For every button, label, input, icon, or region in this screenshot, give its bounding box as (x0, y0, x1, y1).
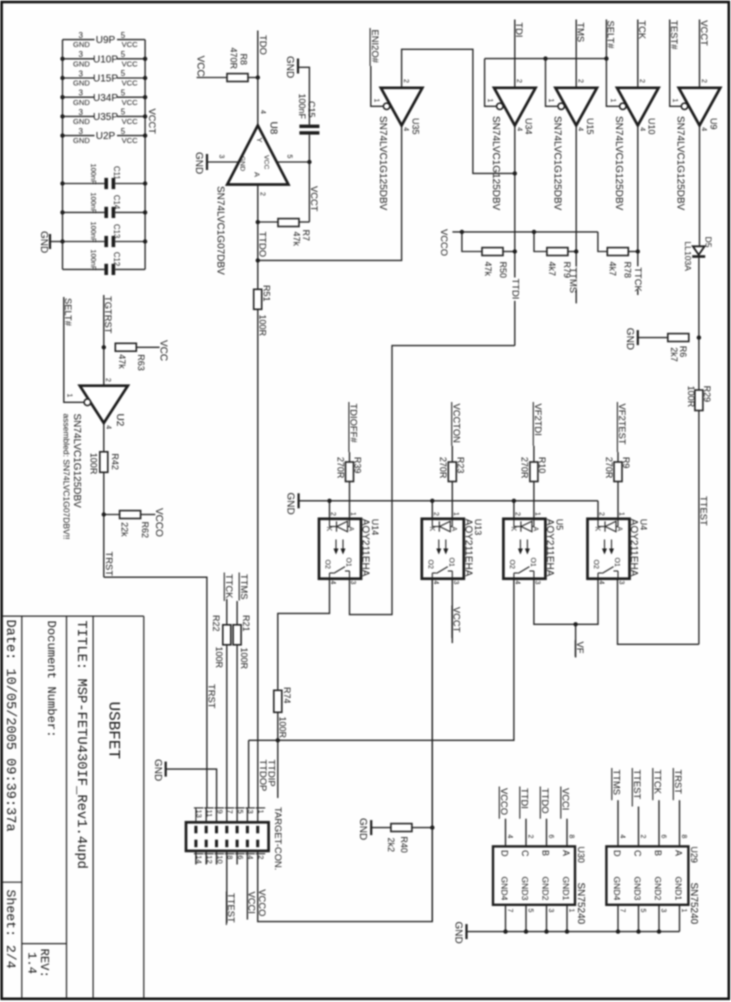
resistor R22 100R (223, 625, 231, 645)
svg-text:VCCT: VCCT (452, 607, 463, 633)
svg-text:100nF: 100nF (89, 192, 98, 213)
svg-text:GND: GND (285, 493, 296, 515)
svg-text:5: 5 (527, 909, 534, 913)
U14 light arrows (335, 540, 337, 553)
buffer U9 triangle SN74LVC1G125DBV (679, 88, 721, 126)
wire R74 to TTDIP bus (277, 712, 279, 740)
svg-text:U2: U2 (114, 414, 125, 427)
node GND bus U5 pin2 (512, 499, 516, 503)
connector pin 13 stub (195, 808, 197, 822)
ground symbol opto bus (298, 493, 300, 508)
svg-text:R10: R10 (537, 457, 547, 474)
svg-text:2: 2 (639, 835, 646, 839)
svg-text:GND2: GND2 (541, 877, 551, 901)
svg-text:AQY211EHA: AQY211EHA (462, 519, 473, 577)
svg-text:100nF: 100nF (89, 249, 98, 270)
svg-text:2k7: 2k7 (669, 347, 679, 362)
svg-text:100R: 100R (214, 647, 224, 669)
node pin5-C15 junction (307, 160, 311, 164)
wire R8 to TDO node (248, 77, 258, 79)
connector pin 14 pad (194, 840, 197, 848)
node GND bus junction (636, 929, 640, 933)
svg-text:5: 5 (285, 155, 292, 159)
U4 LED internal (597, 519, 599, 527)
svg-text:SN75240: SN75240 (688, 883, 699, 925)
svg-text:R79: R79 (562, 262, 572, 279)
svg-text:U9P: U9P (96, 35, 116, 46)
svg-text:U5: U5 (554, 519, 564, 531)
svg-text:22k: 22k (120, 522, 130, 537)
svg-text:7: 7 (619, 909, 626, 913)
svg-text:assembled: SN74LVC1G07DBV!!: assembled: SN74LVC1G07DBV!! (61, 414, 71, 540)
wire enable bus SELT# (485, 58, 607, 60)
resistor R6 2k7 (668, 334, 689, 342)
node GND bus U13 pin2 (430, 499, 434, 503)
svg-text:TTEST: TTEST (698, 496, 709, 526)
buffer U10 enable bubble (620, 103, 626, 109)
svg-text:VCCO: VCCO (439, 229, 450, 256)
svg-text:VCCI: VCCI (560, 788, 571, 810)
svg-text:TDO: TDO (258, 35, 269, 55)
svg-text:R42: R42 (110, 453, 120, 470)
svg-text:VCC: VCC (122, 136, 139, 145)
connector pin 3 stub (246, 808, 248, 822)
wire R39 to opto pin1 (349, 482, 351, 519)
connector pin 1 pad (256, 826, 259, 834)
wire R40 to VCCO line (412, 827, 432, 829)
connector pin 14 stub (195, 851, 197, 865)
wire U5 pin3 to VF and U4 pin4 (534, 579, 598, 625)
svg-text:U9: U9 (708, 118, 718, 130)
wire D5 to R6 node (698, 257, 700, 390)
svg-text:U14: U14 (370, 519, 380, 536)
node TDO-R8 junction (256, 75, 260, 79)
wire enable bus to U15 pin1 (546, 59, 559, 107)
connector pin 10 stub (216, 851, 218, 865)
svg-text:R63: R63 (136, 354, 146, 371)
opto relay U13 AQY211EHA box (422, 519, 464, 579)
svg-text:R9: R9 (621, 457, 631, 469)
svg-text:Y: Y (255, 138, 264, 143)
svg-text:47k: 47k (292, 232, 302, 247)
buffer U9 enable bubble (681, 103, 687, 109)
svg-text:SN74LVC1G125DBV: SN74LVC1G125DBV (71, 414, 82, 509)
wire R62 to VCCO (141, 514, 156, 516)
title block outline (3, 615, 144, 617)
wire R42 to R62 node (103, 472, 105, 577)
svg-text:U34: U34 (524, 118, 534, 135)
wire left power rail (62, 40, 64, 270)
node R40 junction (430, 825, 434, 829)
power pins row U2P (63, 135, 95, 137)
connector pin 3 tick and number (245, 807, 255, 809)
svg-text:Date: 10/05/2005 09:39:37a: Date: 10/05/2005 09:39:37a (2, 620, 17, 832)
svg-text:4: 4 (700, 127, 707, 131)
svg-text:VCC: VCC (122, 79, 139, 88)
svg-text:TMS: TMS (575, 22, 586, 42)
ground symbol bottom bus (465, 924, 467, 939)
U30 bottom wire pin 7 (505, 905, 507, 932)
svg-text:SN74LVC1G125DBV: SN74LVC1G125DBV (490, 116, 501, 211)
svg-text:4: 4 (577, 127, 584, 131)
connector pin 5 pad (236, 826, 239, 834)
svg-text:100nF: 100nF (297, 94, 307, 120)
svg-text:GND: GND (152, 759, 163, 781)
wire VCCT down to R7 (299, 221, 309, 223)
wire TEST# to U9 pin1 (670, 20, 682, 107)
svg-text:2: 2 (515, 79, 522, 83)
wire TTDO to connector pin1 (257, 309, 259, 808)
svg-text:3: 3 (78, 31, 83, 40)
svg-text:4: 4 (506, 835, 513, 839)
buffer U15 triangle SN74LVC1G125DBV (555, 88, 597, 126)
U5 LED internal (513, 519, 515, 527)
wire VCCO to R78 (598, 232, 607, 252)
svg-text:TITLE: MSP-FETU430IF_Rev1.4up: TITLE: MSP-FETU430IF_Rev1.4upd (73, 621, 89, 869)
svg-text:U10: U10 (647, 118, 657, 135)
svg-text:1: 1 (680, 909, 687, 913)
wire C15 to pin5 node (308, 135, 310, 222)
U5 light arrows (519, 540, 521, 553)
buffer U15 enable bubble (558, 103, 564, 109)
power pins row U34P (63, 96, 95, 98)
node enable bus at SELT# (604, 56, 608, 60)
svg-text:GND3: GND3 (633, 877, 643, 901)
title block rev divider (22, 943, 67, 945)
wire node to R62 (104, 514, 120, 516)
svg-text:4: 4 (619, 835, 626, 839)
svg-text:TRST: TRST (104, 552, 115, 577)
svg-text:R78: R78 (622, 262, 632, 279)
wire TDIOFF# to R39 (349, 452, 351, 462)
svg-text:100R: 100R (239, 648, 249, 670)
resistor R63 47k (115, 343, 136, 351)
node GND bus junction (544, 929, 548, 933)
svg-text:TTDO: TTDO (540, 788, 551, 814)
svg-text:3: 3 (78, 108, 83, 117)
svg-text:U10P: U10P (93, 54, 118, 65)
resistor R79 4k7 (547, 248, 568, 256)
svg-text:VCC: VCC (158, 340, 169, 361)
U30 wire pin 8 (566, 819, 568, 847)
svg-text:R50: R50 (498, 262, 508, 279)
svg-text:6: 6 (547, 835, 554, 839)
net label TTDI (511, 278, 519, 301)
svg-text:4k7: 4k7 (608, 262, 618, 277)
svg-text:C11: C11 (112, 166, 121, 180)
svg-text:R40: R40 (399, 836, 409, 853)
capacitor C12 100nF (63, 268, 105, 270)
svg-text:3: 3 (660, 909, 667, 913)
opto relay U5 AQY211EHA box (503, 519, 545, 579)
svg-text:R74: R74 (282, 687, 292, 704)
svg-text:D: D (500, 850, 510, 857)
svg-text:TTCK: TTCK (633, 267, 644, 292)
wire R7 to TTDO line (258, 221, 278, 223)
svg-text:GND: GND (73, 79, 90, 88)
net label TTCK at U10 (634, 266, 642, 289)
U4 switch internal (597, 573, 599, 579)
wire U35 pin2 to TTDI (402, 49, 515, 173)
svg-text:TGTRST: TGTRST (103, 296, 114, 334)
wire VCCTON to R23 (451, 446, 453, 462)
svg-text:R8: R8 (238, 54, 248, 66)
svg-text:4: 4 (259, 110, 266, 114)
svg-text:SN74LVC1G125DBV: SN74LVC1G125DBV (551, 116, 562, 211)
wire VF2TEST to R9 (617, 452, 619, 462)
svg-text:VCC: VCC (122, 98, 139, 107)
svg-text:270R: 270R (604, 457, 614, 479)
junction dots row U15P (60, 76, 64, 80)
svg-text:TTCK: TTCK (224, 574, 235, 599)
wire R23 to opto pin1 (451, 482, 453, 519)
svg-text:GND4: GND4 (500, 877, 510, 901)
svg-text:TTEST: TTEST (632, 770, 643, 800)
node R7 junction (256, 220, 260, 224)
svg-text:5: 5 (121, 50, 126, 59)
svg-text:TCK: TCK (637, 20, 648, 39)
svg-text:AQY211EHA: AQY211EHA (544, 519, 555, 577)
wire TTEST to U4 pin3 (618, 579, 699, 645)
wire VCCO to R79 (534, 232, 547, 252)
U29 bottom wire pin 5 (638, 905, 640, 932)
U29 wire pin 6 (658, 800, 660, 846)
svg-text:8: 8 (568, 835, 575, 839)
svg-text:2: 2 (259, 192, 266, 196)
svg-text:4: 4 (515, 127, 522, 131)
buffer U2 triangle (80, 386, 128, 423)
U30 wire pin 4 (505, 819, 507, 847)
U29 wire pin 8 (679, 800, 681, 846)
svg-text:R39: R39 (353, 457, 363, 474)
svg-text:K: K (325, 527, 332, 532)
wire R79 to TTMS (568, 251, 576, 253)
svg-text:1: 1 (568, 909, 575, 913)
svg-text:100R: 100R (277, 717, 287, 739)
svg-text:GND: GND (73, 98, 90, 107)
wire U8 pin3 (207, 161, 239, 163)
IC U30 SN75240 box (493, 846, 575, 904)
net label TTMS at U15 (569, 267, 577, 290)
wire enable bus to U34 pin1 (485, 59, 497, 107)
title block sheet divider (3, 881, 22, 883)
connector pin 13 pad (194, 826, 197, 834)
svg-text:GND3: GND3 (520, 877, 530, 901)
svg-text:TRST: TRST (673, 770, 684, 795)
capacitor C15 100nF (299, 125, 319, 128)
svg-text:3: 3 (78, 127, 83, 136)
diode D5 LL103A (693, 246, 705, 255)
buffer U35 triangle SN74LVC1G125DBV (381, 88, 423, 126)
connector pin 9 tick and number (215, 807, 225, 809)
svg-text:100R: 100R (686, 386, 696, 408)
svg-text:TDI: TDI (514, 22, 525, 37)
resistor R50 47k (482, 248, 503, 256)
svg-text:A: A (561, 850, 571, 856)
svg-text:3: 3 (618, 581, 625, 585)
wire U5 pin4 to TTDIP bus (249, 579, 514, 741)
svg-text:7: 7 (506, 909, 513, 913)
node GND bus junction (524, 929, 528, 933)
U13 switch internal (431, 573, 433, 579)
wire U8 pin5 (277, 161, 310, 163)
U29 bottom wire pin 3 (658, 905, 660, 932)
node GND bus U14 pin2 (327, 499, 331, 503)
node TTDI-R50 (513, 249, 517, 253)
svg-text:SELT#: SELT# (606, 21, 617, 50)
wire TDO (257, 31, 259, 126)
svg-text:U29: U29 (689, 846, 699, 863)
svg-text:3: 3 (78, 89, 83, 98)
wire VCCO bus (452, 231, 598, 233)
svg-text:TDIOFF#: TDIOFF# (349, 404, 360, 444)
connector pin 6 tick and number (235, 853, 245, 855)
svg-text:SN74LVC1G125DBV: SN74LVC1G125DBV (675, 116, 686, 211)
svg-text:VCC: VCC (263, 155, 270, 169)
junction dots row U10P (60, 57, 64, 61)
resistor R23 270R (448, 462, 456, 482)
wire ENI2O# to U35 pin1 (371, 66, 384, 106)
svg-text:1: 1 (547, 99, 554, 103)
ground symbol R6 (637, 330, 639, 345)
wire TTEST from pin8 (226, 851, 228, 923)
svg-text:O2: O2 (508, 560, 515, 569)
U30 bottom wire pin 3 (546, 905, 548, 932)
svg-text:K: K (509, 527, 516, 532)
connector pin 12 tick and number (204, 853, 214, 855)
wire TTMS through R21 to connector pin5 (236, 601, 238, 625)
wire TCK to U10 pin2 (637, 20, 639, 88)
wire GND to C15 (298, 67, 309, 124)
net label TTDIP (267, 759, 275, 788)
svg-text:A: A (450, 527, 457, 532)
wire VCCO to R50 (462, 232, 482, 252)
connector pin 7 pad (225, 826, 228, 834)
svg-text:U2P: U2P (96, 131, 116, 142)
svg-text:2: 2 (638, 79, 645, 83)
U29 wire pin 4 (617, 800, 619, 846)
wire VCC to R8 (197, 77, 227, 79)
svg-text:100R: 100R (89, 453, 99, 475)
resistor R78 4k7 (607, 248, 628, 256)
connector pin 5 tick and number (235, 807, 245, 809)
wire TDI to U34 pin2 (514, 20, 516, 88)
svg-text:A: A (531, 527, 538, 532)
wire GND bus to U14 pin2 (329, 501, 331, 519)
svg-text:GND: GND (73, 59, 90, 68)
svg-text:O2: O2 (592, 560, 599, 569)
svg-text:SN74LVC1G125DBV: SN74LVC1G125DBV (377, 116, 388, 211)
wire U9 output to D5 (699, 125, 701, 246)
capacitor C13 100nF (63, 241, 105, 243)
svg-text:1.4: 1.4 (25, 952, 39, 974)
svg-text:GND1: GND1 (561, 877, 571, 901)
power pins row U15P (63, 77, 95, 79)
resistor R29 100R (695, 390, 703, 411)
svg-text:47k: 47k (483, 262, 493, 277)
svg-text:TTEST: TTEST (226, 893, 237, 923)
wire U14 pin3 to TTDI (350, 346, 515, 615)
svg-text:3: 3 (78, 50, 83, 59)
junction dots row U34P (60, 95, 64, 99)
svg-text:1: 1 (486, 99, 493, 103)
power pins row U10P (63, 58, 95, 60)
wire TTDIP label stub (277, 740, 279, 798)
svg-text:O1: O1 (345, 558, 352, 567)
U29 wire pin 2 (638, 807, 640, 847)
connector pin 12 stub (205, 851, 207, 865)
wire U2 output (103, 423, 105, 452)
svg-text:VCC: VCC (122, 59, 139, 68)
svg-text:AQY211EHA: AQY211EHA (628, 519, 639, 577)
junction dots row U2P (60, 133, 64, 137)
wire opto GND bus (299, 500, 598, 502)
ground symbol connector pin9 (165, 762, 167, 777)
svg-text:O1: O1 (447, 558, 454, 567)
svg-text:VCCI: VCCI (247, 892, 258, 914)
svg-text:270R: 270R (335, 457, 345, 479)
resistor R7 47k (278, 219, 299, 227)
U13 light arrows (438, 540, 440, 553)
svg-text:4: 4 (638, 127, 645, 131)
junction dots C13 (60, 239, 64, 243)
capacitor C14 100nF (63, 211, 105, 213)
wire R21 to pin5 (236, 645, 238, 808)
connector pin 4 pad (246, 840, 249, 848)
ground symbol above C15 (297, 59, 299, 74)
svg-text:4: 4 (104, 425, 111, 429)
ground symbol power block (50, 241, 63, 243)
svg-text:C13: C13 (112, 224, 121, 238)
junction dots C14 (60, 210, 64, 214)
wire R40 to GND (371, 827, 391, 829)
buffer U34 enable bubble (497, 103, 503, 109)
buffer U35 enable bubble (383, 103, 389, 109)
svg-text:TTMS: TTMS (611, 770, 622, 796)
svg-text:Document Number:: Document Number: (44, 621, 58, 738)
svg-text:GND1: GND1 (674, 877, 684, 901)
svg-text:C12: C12 (112, 252, 121, 266)
wire VCCI stub from pin4 (246, 851, 248, 920)
svg-text:VCC: VCC (122, 117, 139, 126)
capacitor C11 100nF (63, 183, 105, 185)
svg-text:D5: D5 (704, 237, 714, 248)
wire TTMS from U15 output (575, 125, 577, 303)
node GND bus junction (503, 929, 507, 933)
junction dots row U35P (60, 114, 64, 118)
U30 bottom wire pin 1 (566, 905, 568, 932)
wire SELT# to U2 pin1 (64, 297, 84, 402)
connector pin 6 pad (236, 840, 239, 848)
resistor R39 270R (346, 462, 354, 482)
svg-text:U13: U13 (473, 519, 483, 536)
wire TMS to U15 pin2 (575, 20, 577, 88)
svg-text:U30: U30 (576, 846, 586, 863)
ground symbol U8 pin3 (206, 154, 208, 170)
wire U14 pin4 to R74 (278, 579, 330, 691)
wire GND bus to U4 pin2 (597, 501, 599, 519)
connector pin 8 pad (225, 840, 228, 848)
connector pin 11 stub (205, 808, 207, 822)
svg-text:VF2TEST: VF2TEST (617, 404, 628, 445)
wire VCCT to U9 pin2 (699, 20, 701, 88)
wire TTEST down right side (698, 411, 700, 645)
resistor R8 470R (227, 74, 248, 82)
node GND bus junction (657, 929, 661, 933)
svg-text:VCC: VCC (194, 56, 205, 77)
wire R6 to GND (638, 337, 668, 339)
svg-text:C: C (633, 850, 643, 857)
